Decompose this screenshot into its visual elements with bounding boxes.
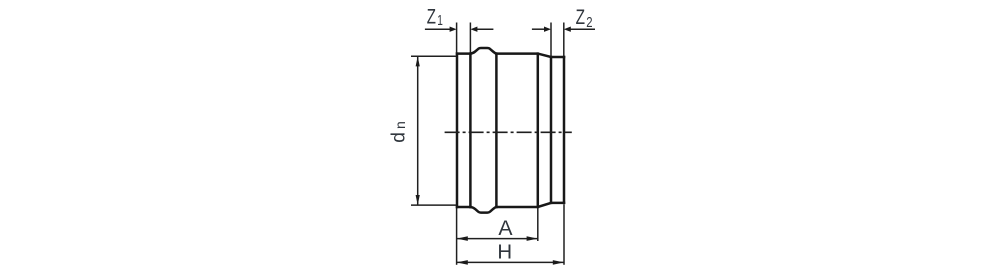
svg-text:Z: Z [427,5,436,28]
svg-text:2: 2 [586,15,592,31]
svg-text:dn: dn [388,121,410,143]
svg-text:H: H [497,242,512,264]
svg-text:1: 1 [437,12,443,29]
svg-text:A: A [498,217,513,240]
svg-text:Z: Z [576,6,586,29]
